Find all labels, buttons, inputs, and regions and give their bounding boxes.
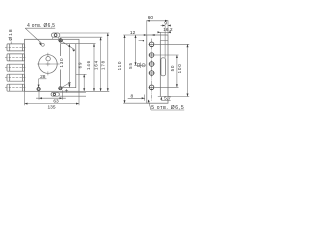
dim 8 [128,93,145,101]
plate hole 3 [149,62,155,67]
plate hole 5 [149,85,155,90]
dim 178 [101,33,109,91]
label diameter 18 [8,28,14,43]
dim 5,7 [160,95,171,101]
svg-text:8: 8 [130,93,133,99]
svg-text:164: 164 [94,60,99,70]
dim 16,2 [158,26,173,58]
svg-text:9: 9 [164,20,167,26]
slot cutout [161,58,166,76]
strike plate outline [147,35,168,103]
bottom extension line of body [79,90,109,92]
svg-text:130: 130 [59,57,64,67]
svg-text:146: 146 [86,60,91,70]
bolt 4 [5,74,27,81]
hole bottom-left [36,88,40,91]
svg-text:110: 110 [117,61,122,71]
dim 55 [128,35,144,69]
fold line [159,41,161,97]
svg-text:100: 100 [177,63,182,73]
plate hole 4 [149,71,155,76]
label 5 holes dia 6,5 [148,100,184,111]
dim 12 [130,30,155,36]
flange bottom edge [158,96,168,98]
dim 63 [36,90,66,104]
flange top edge [160,40,168,42]
hole top-left [41,43,44,46]
dim 9 [161,20,171,26]
bolt 3 [5,64,27,71]
dim 100 [155,44,189,96]
label 4 holes dia 6.5 [25,23,55,46]
cylinder circle [37,53,60,76]
svg-text:135: 135 [47,104,55,110]
bolt 2 [5,54,27,61]
dim 135 [25,91,80,110]
dim 28 leader [38,74,47,87]
plate hole 2 [149,53,155,58]
svg-text:16,2: 16,2 [163,27,173,33]
dim 60 [147,15,168,34]
dim 50 [155,55,179,87]
diagonal arrow top-right [62,42,75,52]
svg-text:69: 69 [78,62,83,69]
bolt 5 [5,84,27,91]
svg-text:50: 50 [170,65,175,72]
dim 130 [59,44,70,87]
svg-text:55: 55 [128,62,133,69]
hole top-right [58,38,63,43]
lock body outline [25,39,80,91]
svg-text:178: 178 [101,60,106,70]
svg-text:60: 60 [148,15,154,21]
dim 146 [76,44,96,92]
cover plate inner rect [61,44,76,88]
svg-text:28: 28 [40,74,46,80]
small cross mark near bottom-right of cover [65,89,68,92]
svg-text:Ø18: Ø18 [8,28,14,40]
bolt 1 [5,44,27,51]
svg-text:5,7: 5,7 [164,95,171,101]
small square feature [138,63,140,66]
top rod end [52,33,110,39]
plate hole 1 [149,42,155,47]
dim 164 [94,37,102,91]
plate hole centerline [151,39,153,101]
dim 110 [117,35,147,103]
small circle feature [141,63,146,69]
bottom rod end [51,93,86,97]
hole bottom-right [58,87,62,90]
dim 69 [76,62,87,92]
diagonal arrow bottom-right [62,82,71,87]
